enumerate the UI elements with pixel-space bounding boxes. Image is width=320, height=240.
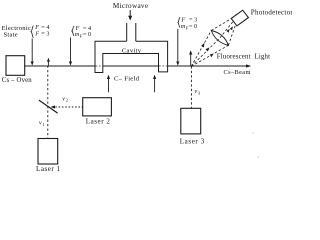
svg-text:C– Field: C– Field [114, 76, 140, 83]
fluorescent ray upper (dashed with arrowhead) [191, 19, 231, 67]
photodetector box [231, 10, 248, 26]
svg-text:F: F [34, 30, 39, 37]
state-selection line with arrow [31, 39, 34, 66]
svg-text:F: F [185, 25, 189, 30]
scan specks [253, 133, 260, 158]
mirror / beamsplitter [39, 100, 58, 113]
Laser 3 box [181, 108, 201, 134]
optical pumping line with arrow [69, 38, 72, 66]
svg-text:Fluorescent Light: Fluorescent Light [217, 54, 270, 61]
text nu3 [195, 89, 202, 95]
svg-text:Cavity: Cavity [122, 47, 142, 54]
svg-text:= 3: = 3 [41, 30, 49, 37]
svg-text:Laser 1: Laser 1 [36, 165, 61, 173]
svg-text:F: F [79, 34, 83, 39]
dashed laser beam from Laser 3 up to atomic beam [190, 66, 192, 108]
detection-state line with arrow [176, 29, 179, 66]
up arrow at detection region [189, 50, 192, 66]
lens [211, 31, 228, 46]
svg-text:State: State [4, 31, 18, 38]
fluorescent ray lower (dashed with arrowheads) [191, 25, 235, 67]
beam line gaps inside cavity legs [96, 65, 168, 67]
brace F=3 mF=0 [178, 17, 197, 31]
waveguide feed lines [127, 23, 136, 41]
cavity outline (Ramsey cavity) [95, 41, 168, 72]
svg-text:Photodetector: Photodetector [251, 8, 292, 16]
text nu1 [39, 121, 45, 127]
svg-text:Laser 2: Laser 2 [86, 118, 111, 126]
dashed laser beam from Laser 1 up to atomic beam [47, 66, 49, 139]
dashed beam from Laser 2 to mirror with left arrow [51, 105, 83, 108]
microwave arrow [128, 10, 132, 21]
Laser 2 box [83, 98, 112, 116]
svg-text:Cs–Beam: Cs–Beam [224, 69, 251, 76]
svg-text:= 0: = 0 [189, 23, 197, 30]
C-field arrows [107, 75, 156, 93]
atomic beam line with end arrow [25, 64, 252, 67]
svg-text:2: 2 [66, 98, 68, 103]
fluorescent ray middle (dashed with arrowhead) [191, 22, 233, 67]
brace F=4 mF=0 [72, 25, 91, 39]
svg-text:Laser 3: Laser 3 [180, 137, 205, 145]
svg-text:Cs – Oven: Cs – Oven [2, 77, 32, 84]
small up arrow at pumping crossing [47, 58, 50, 66]
svg-text:Microwave: Microwave [113, 2, 148, 10]
svg-text:1: 1 [43, 122, 45, 127]
text nu2 [62, 96, 68, 102]
text Electronic State [2, 25, 32, 39]
Laser 1 box [38, 139, 58, 165]
svg-text:= 0: = 0 [83, 31, 91, 38]
Cs oven box [6, 56, 25, 76]
brace F=4 F=3 [31, 24, 49, 37]
